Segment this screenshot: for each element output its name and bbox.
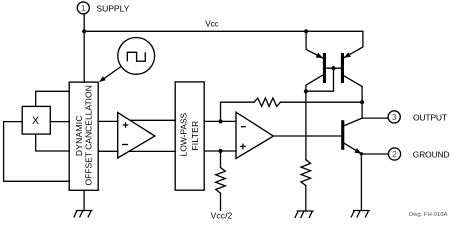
svg-text:LOW-PASS: LOW-PASS [179, 112, 189, 156]
svg-text:X: X [32, 115, 39, 127]
svg-text:GROUND: GROUND [413, 149, 450, 159]
svg-text:OUTPUT: OUTPUT [413, 112, 448, 122]
svg-text:FILTER: FILTER [190, 121, 200, 151]
svg-text:Vcc: Vcc [205, 19, 218, 28]
svg-text:Dwg. FH-016A: Dwg. FH-016A [409, 212, 448, 218]
svg-text:Vcc/2: Vcc/2 [211, 211, 233, 220]
svg-text:3: 3 [392, 113, 397, 122]
svg-text:SUPPLY: SUPPLY [96, 3, 129, 13]
svg-text:1: 1 [81, 4, 86, 13]
svg-text:OFFSET CANCELLATION: OFFSET CANCELLATION [83, 85, 93, 185]
svg-text:2: 2 [392, 150, 397, 159]
